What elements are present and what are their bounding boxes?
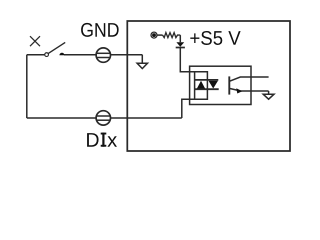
LED down diode (triangle) [209,81,219,89]
wire GND terminal into box [111,54,143,56]
ground arrow (internal M reference) [137,55,147,69]
cross mark (wire break X) [30,36,40,46]
wire riser to LED cathode [182,99,208,118]
wire diode to LED anode [180,48,195,72]
optocoupler U1 box [190,66,251,104]
terminal GND (circle with two chords) [96,48,110,62]
switch S (contact) [27,42,65,56]
collector lead [229,77,268,81]
device outer box [127,21,290,151]
wire DIx terminal to optocoupler [111,117,182,119]
LED up diode (triangle) [197,81,205,89]
wire resistor to diode [179,35,181,42]
LED bottom rail [195,88,219,90]
phototransistor Q (base bar) [228,76,230,94]
terminal point +S5V (circled dot) [151,32,157,38]
LED pair inner rectangle [195,72,208,100]
ground arrow (emitter reference) [263,91,274,99]
label GND [81,23,119,37]
resistor R (zigzag) [163,33,181,38]
diode D (series, pointing down) [176,42,185,47]
wire switch to GND terminal [64,54,96,56]
emitter lead with arrow [229,88,268,93]
wire DIx horizontal left [27,117,96,119]
wire terminal to resistor [157,34,163,36]
label DIx [87,133,117,147]
terminal DIx (circle with two chords) [96,111,110,125]
label +S5 V [190,31,240,45]
LED top rail [195,79,219,81]
wire left vertical [26,55,28,118]
